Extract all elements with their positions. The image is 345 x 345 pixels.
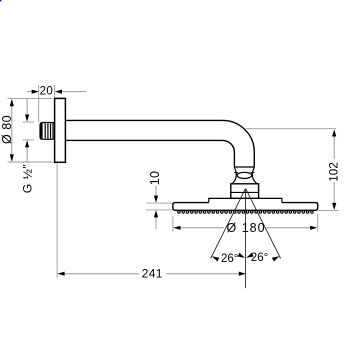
arrow dim-26right inner bbox=[245, 253, 253, 260]
wire dim-G12 line bottom bbox=[26, 147, 28, 161]
shower head disc bbox=[173, 203, 318, 211]
arm end joint line bbox=[234, 166, 254, 168]
top cover plate bbox=[209, 198, 282, 202]
ball joint neck bbox=[234, 167, 254, 173]
arrow dim-20 left bbox=[32, 90, 39, 94]
svg-text:26°: 26° bbox=[221, 253, 238, 265]
wire dim-102 line lower bbox=[333, 182, 335, 203]
collar flare bbox=[232, 173, 257, 184]
spray cone centre line bbox=[245, 189, 247, 289]
svg-text:10: 10 bbox=[148, 171, 162, 185]
corner artifact blue dot bbox=[0, 0, 1, 1]
hub groove line bbox=[231, 191, 259, 193]
svg-text:26°: 26° bbox=[251, 252, 268, 264]
wire dim-241 line left bbox=[65, 273, 139, 275]
svg-text:Ø 180: Ø 180 bbox=[227, 221, 266, 235]
wire ext-line dia80 top bbox=[8, 98, 53, 100]
arrow dim-20 right bbox=[55, 90, 62, 94]
arrow dim-26left inner bbox=[238, 253, 246, 260]
wire ext-line 102 bottom bbox=[318, 210, 339, 212]
wire ext-line 10-top bbox=[146, 202, 172, 204]
wire dim-102 line upper bbox=[333, 137, 335, 160]
spray cone right ray bbox=[246, 189, 281, 259]
wire ext-line dia180 right bbox=[317, 214, 319, 232]
wire dim-10 line lower bbox=[155, 217, 157, 229]
hub block bbox=[231, 184, 259, 199]
wire dim-dia180 line right bbox=[267, 227, 311, 229]
spray nozzles bbox=[178, 211, 314, 214]
svg-text:G ½": G ½" bbox=[20, 164, 34, 193]
node tick G12 top bbox=[23, 121, 34, 123]
arrow dim-26left outer bbox=[211, 254, 219, 261]
threaded nipple G1/2 bbox=[40, 123, 55, 140]
arrow dim-10 up bbox=[154, 210, 158, 217]
ball joint waist ticks bbox=[234, 172, 254, 174]
arrow dim-26right outer bbox=[272, 254, 280, 261]
arrow dim-dia80 down bbox=[10, 154, 14, 161]
arrow dim-102 down bbox=[332, 203, 336, 210]
arrow dim-dia180 left bbox=[173, 226, 180, 230]
node ext-line 20-left bbox=[38, 85, 40, 122]
wire ext-line 10-bottom bbox=[146, 209, 172, 211]
wire dim-10 line upper bbox=[155, 186, 157, 196]
wire dim-dia180 line left bbox=[181, 227, 224, 229]
svg-text:102: 102 bbox=[328, 162, 340, 182]
arrow dim-241 right bbox=[239, 272, 246, 276]
node tick G12 bottom bbox=[23, 139, 34, 141]
arrow dim-102 up bbox=[332, 129, 336, 136]
arrow dim-G12 down bbox=[25, 115, 29, 122]
wire dim-20 line left segment bbox=[27, 91, 32, 93]
arrow dim-dia180 right bbox=[310, 226, 317, 230]
wire ext-line 102 top bbox=[246, 128, 336, 130]
wire dim-dia80 line bbox=[11, 100, 13, 161]
wire ext-line dia180 left bbox=[172, 217, 174, 232]
wire dim-241 line right bbox=[166, 273, 239, 275]
arrow dim-10 down bbox=[154, 196, 158, 203]
shower arm tube outline bbox=[65, 120, 254, 167]
wire ext-line dia80 bottom bbox=[8, 161, 53, 163]
svg-text:Ø 80: Ø 80 bbox=[0, 115, 14, 144]
wire dim-G12 line top bbox=[26, 99, 28, 115]
arrow dim-G12 up bbox=[25, 140, 29, 147]
wire ext-line 241 left bbox=[56, 163, 58, 277]
spray cone left ray bbox=[211, 189, 246, 259]
node ext-line 20-right above flange bbox=[54, 85, 56, 98]
svg-text:20: 20 bbox=[40, 85, 54, 97]
svg-text:241: 241 bbox=[142, 267, 163, 281]
wire dim-20 line right segment bbox=[62, 91, 86, 93]
arrow dim-dia80 up bbox=[10, 99, 14, 106]
wall flange escutcheon bbox=[55, 98, 66, 162]
arrow dim-241 left bbox=[57, 272, 64, 276]
ball bbox=[237, 172, 252, 178]
